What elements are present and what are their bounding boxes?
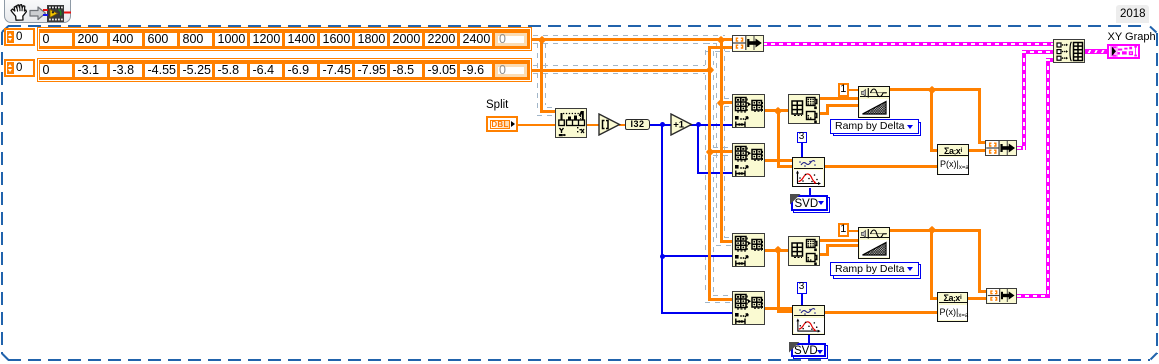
control DBL (Split) bbox=[486, 116, 518, 132]
constant 1 (top) bbox=[838, 83, 850, 97]
junction dot split2 input bbox=[774, 246, 782, 254]
node Array Subset 4 bbox=[732, 291, 765, 325]
snippet dashed border right bbox=[1156, 33, 1158, 354]
wire: array1 vertical down to threshold bbox=[540, 39, 543, 112]
wire: bundle2 cluster out bbox=[1017, 294, 1050, 298]
snippet dashed border top bbox=[8, 25, 1148, 27]
wire: node2 out to polyfit bbox=[765, 159, 793, 162]
wire: array1 vertical x=721 down to node3 bbox=[720, 39, 723, 242]
node Array Subset 1 bbox=[732, 94, 765, 128]
node Polynomial Evaluation (bottom) bbox=[937, 292, 968, 322]
wire: vertical x777.8 to polyfit bbox=[777, 109, 780, 167]
node Split 1D Array (top) bbox=[788, 94, 820, 124]
toolbar VI snippet icon bbox=[42, 4, 71, 23]
node Build Array bbox=[1053, 39, 1085, 63]
wire: blue node4 input bbox=[661, 312, 732, 314]
array 2 elements bbox=[40, 64, 72, 77]
constant 3 (bottom) bbox=[797, 282, 807, 294]
wire: junction right to bundle elbow bbox=[931, 88, 981, 91]
junction dot array2 at x709.5 bbox=[705, 66, 713, 74]
wire: node4 orange input elbow bbox=[708, 298, 732, 301]
toolbar (snippet drag bar) bbox=[4, 0, 71, 23]
array 1 elements bbox=[40, 33, 72, 46]
ring constant SVD (top) bbox=[791, 195, 828, 211]
wire: elbow into threshold node bbox=[540, 110, 556, 113]
array constant 1 index box bbox=[4, 28, 35, 46]
node Threshold 1D Array bbox=[555, 108, 587, 138]
toolbar arrow icon bbox=[29, 6, 47, 21]
junction dot node1 input bbox=[717, 98, 725, 106]
node Bundle (chain, bottom) bbox=[986, 288, 1017, 304]
wire: elbow into polyfit2 bbox=[777, 310, 794, 313]
snippet dashed border left bbox=[1, 32, 3, 354]
wire: split2 out2 elbow bbox=[820, 253, 829, 256]
wire: node2 orange input bbox=[708, 150, 732, 153]
node Split 1D Array (bottom) bbox=[788, 236, 820, 266]
wire: junction down to sigma2 bbox=[930, 229, 933, 299]
junction blue 1 bbox=[660, 122, 665, 127]
wire: const 1b to ramp2 bbox=[849, 230, 859, 232]
wire: threshold out to round triangle bbox=[587, 124, 600, 126]
wire: vertical x777.9 to polyfit2 bbox=[777, 249, 780, 313]
wire: sigma out to bundle bbox=[969, 149, 986, 152]
2018 version tab bbox=[1116, 5, 1149, 23]
wire: const 3 blue bbox=[801, 142, 803, 158]
node Ramp Pattern (top) bbox=[858, 86, 890, 118]
constant 1 (bottom) bbox=[838, 223, 850, 237]
wire: junction down to sigma bbox=[930, 88, 933, 151]
ring constant SVD (bottom) shadow bbox=[793, 345, 829, 359]
wire: blue vertical x662 bbox=[661, 124, 663, 314]
wire: node4 out to polyfit2 bbox=[765, 307, 793, 310]
node General Polynomial Fit (top) bbox=[792, 157, 825, 187]
junction dot ramp2 out bbox=[927, 226, 935, 234]
junction dot split input bbox=[774, 106, 782, 114]
wire: +1 out blue to node1 bbox=[690, 124, 732, 126]
node Increment +1 bbox=[670, 113, 693, 136]
wire: blue node2 input bbox=[697, 172, 732, 174]
node General Polynomial Fit (bottom) bbox=[792, 305, 825, 335]
toolbar hand cursor icon bbox=[9, 3, 28, 22]
wire: split2 out1 to ramp2 bbox=[820, 239, 858, 242]
junction blue 3 bbox=[660, 254, 665, 259]
junction dot ramp out bbox=[927, 85, 935, 93]
wire: triangle to I32 bbox=[619, 124, 626, 126]
ring constant SVD (bottom) bbox=[791, 343, 827, 357]
node To Long Integer I32 bbox=[625, 119, 650, 130]
wire: svd2 blue bbox=[808, 335, 810, 344]
node Bundle (arrays, top) bbox=[732, 35, 764, 52]
junction dot node2 input bbox=[705, 147, 713, 155]
node Array Subset 2 bbox=[732, 143, 765, 177]
wire: const 1 to ramp bbox=[849, 89, 858, 91]
wire: split out1 to ramp bbox=[820, 97, 858, 100]
node Polynomial Evaluation (top) bbox=[937, 144, 969, 175]
wire: I32 out blue bbox=[650, 124, 672, 126]
wire: array2 vertical x=709.5 bbox=[708, 46, 711, 301]
junction dot array1 bbox=[537, 35, 545, 43]
wire: svd blue bbox=[809, 188, 811, 196]
junction dot x721 top bbox=[717, 35, 725, 43]
ring constant Ramp by Delta (bottom) bbox=[830, 262, 919, 277]
wire: polyfit out to sigma bbox=[824, 165, 938, 168]
wire: const 3b blue bbox=[801, 293, 803, 307]
wire: bundle1 cluster out bbox=[1017, 146, 1026, 150]
wire: DBL control to threshold bbox=[518, 124, 555, 126]
array constant 1 body bbox=[37, 27, 532, 51]
junction blue 2 bbox=[696, 122, 701, 127]
wire: array2 output horizontal bbox=[532, 69, 712, 72]
wire: blue vertical x698 bbox=[697, 124, 699, 174]
indicator XY Graph terminal bbox=[1107, 44, 1140, 60]
wire ants array1 horizontal bbox=[533, 35, 725, 36]
ring constant Ramp by Delta (bottom) shadow bbox=[833, 264, 922, 279]
wire: node1 out to split bbox=[765, 109, 789, 112]
wire: ramp out bbox=[890, 88, 933, 91]
wire: node1 orange input bbox=[720, 101, 733, 104]
array constant 2 index box bbox=[4, 59, 35, 77]
node Bundle (chain, top) bbox=[985, 140, 1017, 157]
wire: blue node3 input bbox=[661, 255, 732, 257]
wire: bundle input2 horizontal bbox=[708, 46, 732, 49]
wire: polyfit2 out to sigma2 bbox=[825, 311, 938, 314]
ring constant Ramp by Delta (top) bbox=[830, 119, 919, 134]
wire: node3 out to split bbox=[765, 249, 789, 252]
constant 3 (top) bbox=[797, 132, 807, 143]
wire: junction right to bundle2 elbow bbox=[931, 229, 981, 232]
snippet dashed border bottom bbox=[8, 359, 1150, 361]
wire: elbow into node3 bbox=[720, 240, 733, 243]
wire: elbow into polyfit x-input bbox=[777, 165, 794, 168]
label Split bbox=[486, 99, 508, 111]
node Round To Nearest triangle bbox=[598, 113, 621, 136]
wire: sigma2 out to bundle2 bbox=[968, 297, 987, 300]
svg-text:+1: +1 bbox=[673, 120, 685, 131]
node Array Subset 3 bbox=[732, 233, 765, 267]
wire: build array out to XY graph (array of clusters) bbox=[1085, 49, 1108, 54]
node Ramp Pattern (bottom) bbox=[858, 227, 890, 259]
wire: arrays bundle cluster out to build array bbox=[763, 42, 1053, 46]
array constant 2 body bbox=[37, 58, 532, 82]
label XY Graph bbox=[1108, 31, 1156, 43]
ring constant SVD (top) shadow bbox=[793, 197, 830, 213]
ring constant Ramp by Delta (top) shadow bbox=[833, 122, 922, 137]
wire: array1 output horizontal to bundle bbox=[532, 38, 732, 41]
wire: split out2 elbow bbox=[820, 112, 829, 115]
wire: ramp2 out bbox=[890, 229, 933, 232]
